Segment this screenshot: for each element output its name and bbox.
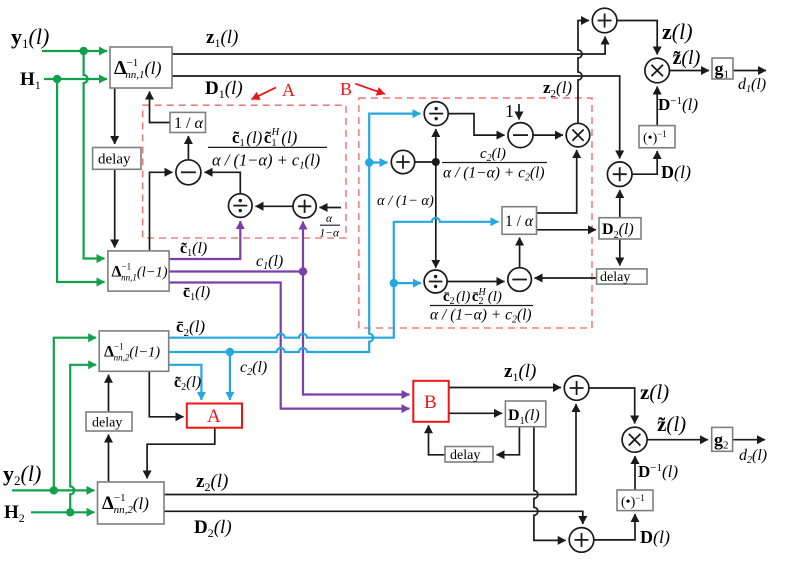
wire alpha constant stub into plus A bbox=[320, 207, 342, 209]
svg-text:c2(l): c2(l) bbox=[480, 146, 506, 164]
svg-text:z(l): z(l) bbox=[640, 380, 669, 404]
block delay bottom right bbox=[445, 447, 493, 463]
block 1/alpha in B bbox=[502, 207, 537, 235]
wire delay down to Delta_nn1(l-1) bbox=[114, 169, 116, 247]
wire ztilde to g1 bbox=[670, 70, 709, 72]
wire minus B up to 1/alpha B bbox=[519, 238, 521, 268]
block 1/alpha in A bbox=[170, 112, 206, 132]
wire Delta_nn1(l) down to delay bbox=[114, 88, 116, 144]
label fraction c2 in B bbox=[442, 146, 547, 184]
block inverse bottom right bbox=[617, 490, 653, 511]
svg-text:D1(l): D1(l) bbox=[205, 78, 243, 101]
wire g1 to d1 output bbox=[733, 70, 766, 72]
svg-text:1 / α: 1 / α bbox=[505, 213, 534, 230]
wire delay bottom right to B box bbox=[429, 425, 445, 455]
svg-text:A: A bbox=[282, 80, 295, 100]
divider top in B bbox=[424, 102, 448, 126]
wire H2 input bbox=[31, 508, 95, 516]
svg-text:B: B bbox=[340, 79, 352, 99]
dashed region B bbox=[359, 98, 592, 328]
svg-text:α: α bbox=[326, 213, 333, 225]
svg-text:D−1(l): D−1(l) bbox=[638, 462, 678, 481]
svg-text:D−1(l): D−1(l) bbox=[658, 95, 698, 114]
divider bottom in B bbox=[424, 270, 447, 293]
wire divider B bottom to minus B bottom bbox=[447, 281, 505, 283]
wire D2 box up to D adder bbox=[619, 190, 621, 218]
svg-text:d1(l): d1(l) bbox=[738, 76, 766, 95]
wire Delta_nn2(l-1) to A box bbox=[149, 371, 183, 417]
wire B box z1 to bottom adder bbox=[449, 387, 561, 389]
wire D1 box down to delay bottom right bbox=[497, 427, 520, 455]
wire delay bottom left up to Delta_nn2(l-1) bbox=[108, 375, 110, 412]
svg-text:d2(l): d2(l) bbox=[739, 447, 767, 466]
svg-text:delay: delay bbox=[600, 270, 630, 285]
svg-text:α / (1− α): α / (1− α) bbox=[377, 193, 434, 209]
svg-text:z1(l): z1(l) bbox=[206, 27, 238, 50]
svg-text:z̃(l): z̃(l) bbox=[657, 412, 686, 436]
label fraction c1tilde in A bbox=[208, 127, 327, 172]
block D1(l) bottom bbox=[505, 401, 545, 427]
wire y2 input bbox=[12, 486, 95, 494]
adder D top right bbox=[607, 162, 632, 187]
svg-text:c̃2(l): c̃2(l) bbox=[174, 374, 201, 393]
label fraction c2bar in B bbox=[430, 287, 533, 326]
adder top right (z1+z2) bbox=[592, 8, 617, 33]
svg-text:1: 1 bbox=[505, 101, 514, 121]
minus circle in A bbox=[176, 160, 201, 185]
svg-text:z2(l): z2(l) bbox=[543, 78, 572, 100]
svg-text:B: B bbox=[424, 392, 437, 413]
svg-text:D2(l): D2(l) bbox=[194, 517, 232, 540]
svg-text:c̃1(l): c̃1(l) bbox=[180, 240, 207, 259]
block g2 bbox=[712, 427, 733, 451]
svg-text:H1: H1 bbox=[20, 69, 41, 92]
block B red bbox=[413, 381, 448, 422]
wire plus A to divider A bbox=[256, 205, 293, 207]
svg-text:Δ−1nn,1(l): Δ−1nn,1(l) bbox=[114, 57, 162, 81]
divider in A bbox=[229, 194, 253, 218]
block D2(l) right bbox=[599, 218, 641, 239]
svg-text:α / (1−α) + c2(l): α / (1−α) + c2(l) bbox=[430, 307, 532, 326]
svg-text:c̄1(l): c̄1(l) bbox=[183, 284, 210, 303]
svg-text:y2(l): y2(l) bbox=[3, 461, 41, 488]
block delay bottom left bbox=[86, 412, 132, 431]
wire c2 cyan to plus B and divider B bbox=[169, 114, 421, 400]
wire D1 long vertical to bottom D adder bbox=[534, 427, 566, 541]
svg-text:delay: delay bbox=[450, 448, 480, 463]
minus circle in B bbox=[508, 123, 533, 148]
block delay left bbox=[93, 148, 141, 170]
wire c1 purple with junction bbox=[169, 222, 410, 395]
wire y1 branch down to Delta_nn1(l-1) bbox=[84, 51, 105, 259]
svg-text:z̃(l): z̃(l) bbox=[673, 47, 701, 69]
wire D1 output line down to D adder bbox=[172, 76, 620, 159]
svg-text:delay: delay bbox=[98, 152, 131, 168]
wire Delta_nn2(l) up to delay bottom left bbox=[108, 435, 110, 483]
wire ztilde bottom to g2 bbox=[647, 439, 708, 441]
wire c1bar purple to B box bbox=[169, 283, 410, 409]
wire Delta_nn1(l-1) up to minus A bbox=[150, 172, 173, 251]
wire D adder to inverse box bbox=[632, 151, 657, 174]
minus bottom in B bbox=[508, 268, 532, 292]
wire minus A up to 1/alpha A bbox=[187, 136, 189, 160]
adder D bottom right bbox=[569, 528, 594, 553]
wire z(l) bottom adder to multiplier bbox=[589, 388, 635, 424]
block delay right bbox=[597, 269, 647, 284]
wire y2 branch up to Delta_nn2(l-1) bbox=[54, 338, 96, 491]
svg-text:Δ−1nn,2(l): Δ−1nn,2(l) bbox=[102, 492, 149, 516]
wire c1tilde purple to divider A bbox=[169, 221, 240, 259]
wire z2 from multiplier in B up to top adder bbox=[578, 21, 589, 124]
wire z2 bottom line to bottom adder bbox=[164, 404, 576, 495]
wire A box output to Delta_nn2(l) bbox=[147, 428, 215, 479]
plus circle in B bbox=[391, 150, 414, 173]
svg-text:z(l): z(l) bbox=[662, 19, 693, 44]
block inverse top right bbox=[639, 126, 675, 148]
multiplier top right bbox=[645, 58, 670, 83]
wire 1/alpha A return to Delta_nn1(l) bbox=[150, 92, 171, 123]
wire y1 input bbox=[42, 47, 107, 55]
svg-text:A: A bbox=[207, 406, 221, 427]
label A red with arrow bbox=[252, 80, 296, 100]
label alpha stub fraction bbox=[320, 213, 341, 240]
svg-text:y1(l): y1(l) bbox=[11, 24, 49, 51]
svg-text:D(l): D(l) bbox=[640, 527, 670, 548]
wire D2 box down to delay right bbox=[619, 239, 621, 266]
wire Dinv to multiplier top right bbox=[656, 87, 658, 126]
wire plus B to both dividers junction bbox=[415, 129, 440, 268]
wire 1/alpha B to multiplier B bbox=[537, 150, 577, 213]
plus circle in A bbox=[293, 195, 316, 218]
wire divider A to minus A bbox=[205, 172, 241, 194]
svg-text:delay: delay bbox=[92, 416, 122, 431]
wire 1/alpha B to D2 box bbox=[537, 229, 597, 231]
svg-text:1 / α: 1 / α bbox=[174, 115, 203, 132]
svg-text:H2: H2 bbox=[4, 502, 25, 525]
svg-text:z2(l): z2(l) bbox=[196, 471, 228, 494]
svg-text:α / (1−α) + c1(l): α / (1−α) + c1(l) bbox=[212, 151, 320, 172]
multiplier bottom right bbox=[622, 427, 647, 452]
block Delta_nn1(l) bbox=[110, 47, 172, 88]
svg-text:c1(l): c1(l) bbox=[256, 253, 283, 272]
wire D2 bottom line to bottom D adder bbox=[164, 511, 583, 524]
svg-text:c2(l): c2(l) bbox=[240, 359, 267, 378]
wire z(l) top adder to multiplier bbox=[617, 21, 657, 55]
wire c2bar cyan to 1/alpha B and divider B bbox=[169, 218, 499, 338]
wire delay right to minus in B bbox=[535, 277, 597, 279]
block Delta_nn2(l-1) bbox=[99, 331, 169, 371]
wire c2tilde cyan to A box bbox=[169, 365, 202, 400]
block g1 bbox=[712, 58, 733, 79]
wire B box to D1 box bbox=[449, 412, 502, 414]
svg-text:α / (1−α) + c2(l): α / (1−α) + c2(l) bbox=[443, 165, 545, 184]
multiplier in B bbox=[566, 123, 590, 147]
dashed region A bbox=[143, 105, 346, 238]
svg-text:c̃1(l)c̃1H(l): c̃1(l)c̃1H(l) bbox=[232, 127, 298, 149]
wire g2 to d2 output bbox=[733, 439, 765, 441]
wire H1 input bbox=[44, 75, 107, 83]
block A red bbox=[187, 404, 242, 428]
svg-text:c̄2(l): c̄2(l) bbox=[176, 317, 205, 339]
wire H2 branch up to Delta_nn2(l-1) bbox=[70, 365, 96, 513]
adder bottom right (z1+z2) bbox=[564, 376, 589, 401]
wire inverse box to multiplier bottom bbox=[634, 456, 636, 490]
label B red with arrow bbox=[340, 79, 385, 99]
wire z1 output line to top adder bbox=[172, 37, 605, 55]
block Delta_nn1(l-1) bbox=[108, 251, 169, 291]
svg-text:z1(l): z1(l) bbox=[504, 361, 536, 384]
wire divider B to minus B bbox=[448, 114, 504, 136]
wire constant 1 into minus B bbox=[518, 104, 520, 120]
svg-text:Δ−1nn,2(l−1): Δ−1nn,2(l−1) bbox=[104, 342, 160, 363]
svg-text:1−α: 1−α bbox=[320, 228, 341, 240]
svg-text:D(l): D(l) bbox=[661, 162, 691, 183]
wire minus B to multiplier B bbox=[533, 134, 563, 136]
wire bottom D adder to inverse box bbox=[594, 514, 635, 540]
block Delta_nn2(l) bbox=[98, 482, 165, 524]
wire H1 branch down to Delta_nn1(l-1) bbox=[57, 79, 104, 282]
svg-text:c̄2(l)c̄2H(l): c̄2(l)c̄2H(l) bbox=[443, 287, 502, 307]
svg-text:Δ−1nn,1(l−1): Δ−1nn,1(l−1) bbox=[112, 262, 168, 283]
